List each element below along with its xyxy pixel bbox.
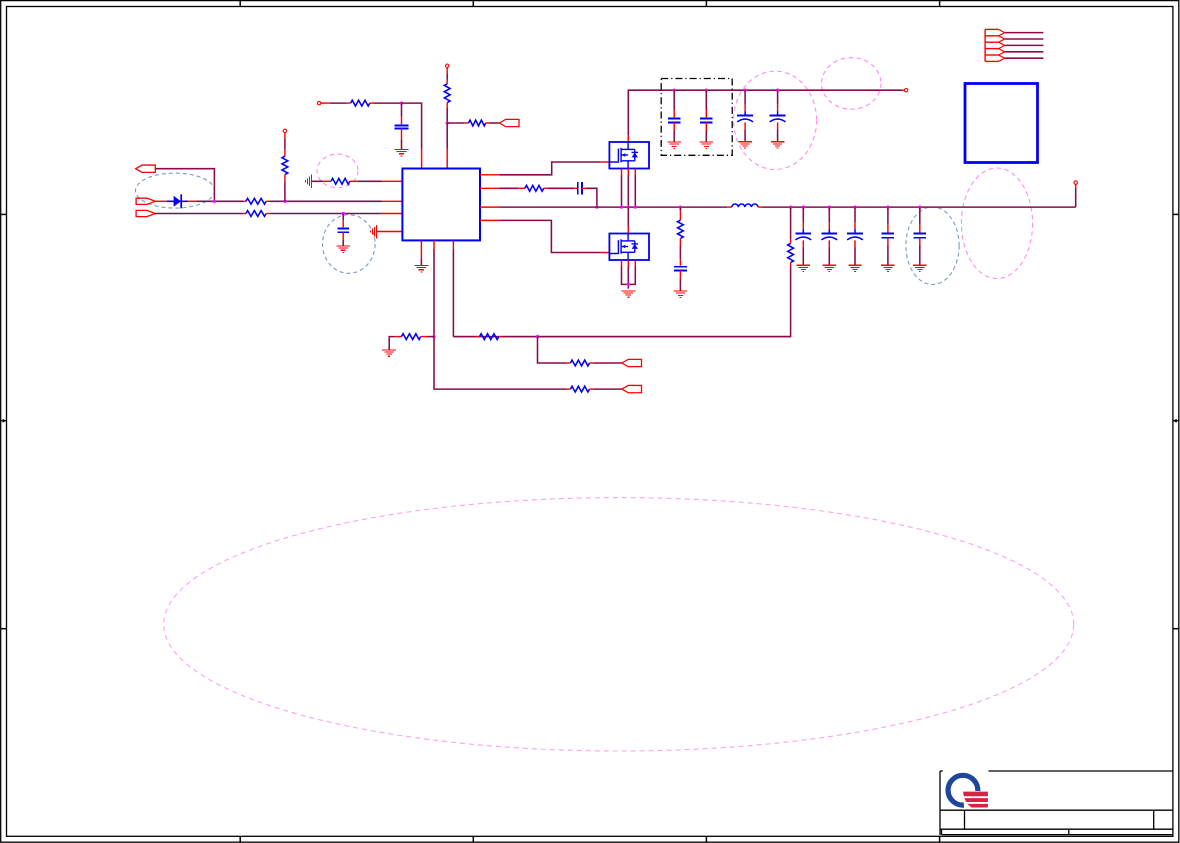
wire Q2 source pins xyxy=(622,260,636,289)
wire SW to Q2 drain xyxy=(627,207,629,233)
highlight circle (pink dashed, top right) xyxy=(822,58,881,110)
ground under C9 xyxy=(797,265,810,271)
ground G6 xyxy=(738,142,751,148)
wire T3 to R6 xyxy=(446,68,448,84)
wire U1 LG to Q2 gate xyxy=(480,220,609,252)
wire R13 to port P5 xyxy=(590,362,622,364)
wire SW rail right xyxy=(763,184,1076,207)
capacitor C10 (polarized) xyxy=(821,229,837,240)
port P4 (left arrow) xyxy=(499,119,519,126)
wire P1 to node A xyxy=(155,169,214,202)
wire FB row xyxy=(453,336,479,338)
highlight ellipse (pink dashed, large bottom) xyxy=(164,498,1074,751)
capacitor C6 (polarized) xyxy=(737,111,753,122)
ground G7 xyxy=(771,142,784,148)
terminal T4 xyxy=(1074,181,1077,184)
wire P3 to R2 xyxy=(155,213,243,215)
capacitor C13 xyxy=(914,234,926,238)
highlight circle (pink dashed, bulk caps) xyxy=(734,71,817,169)
capacitor C11 (polarized) xyxy=(847,229,863,240)
diode D1 xyxy=(167,194,188,208)
port P2 (in) xyxy=(136,198,155,204)
capacitor C2 xyxy=(338,228,349,232)
wire ground leg to R11 xyxy=(389,337,401,350)
node SW junctions xyxy=(620,205,637,208)
resistor R4 xyxy=(351,100,370,106)
resistor R5 xyxy=(331,178,350,184)
wire R8 to C3 xyxy=(544,187,578,189)
capacitor C3 xyxy=(578,182,582,195)
node SW junction C11 xyxy=(853,205,856,208)
wire C10 to ground xyxy=(828,240,830,265)
wire C13 to ground xyxy=(919,238,921,265)
node SW junction 0 xyxy=(595,205,598,208)
resistor R9 xyxy=(678,220,684,238)
wire P2 to D1 xyxy=(155,200,167,202)
wire C3 to SW node xyxy=(582,188,597,207)
ground G10 xyxy=(382,350,396,356)
wire U1 AGND pin xyxy=(420,240,422,265)
node FB junction xyxy=(432,335,435,338)
capacitor C9 (polarized) xyxy=(795,229,811,240)
wire R1 to U1 pin2 xyxy=(270,200,403,202)
resistor R7 xyxy=(469,120,486,126)
chassis ground CG2 xyxy=(371,225,377,239)
capacitor C1 xyxy=(395,125,409,128)
wire D1 to node A xyxy=(188,200,243,202)
blue box (module outline) xyxy=(965,84,1038,163)
node SW junction C10 xyxy=(828,205,831,208)
node VIN junction C5 xyxy=(705,89,708,92)
resistor R14 xyxy=(570,386,589,392)
chassis ground CG1 xyxy=(305,175,311,189)
wire U1 to R8 xyxy=(480,187,525,189)
wire SW rail xyxy=(480,206,727,208)
capacitor C5 xyxy=(700,119,712,123)
ground G2 xyxy=(337,246,350,252)
wire FB elbow to R14 xyxy=(434,337,570,390)
wire CG2 to U1 pin4 xyxy=(377,231,403,233)
op-amp U1 (regulator IC) xyxy=(402,169,480,241)
wire node D to U1 top pin xyxy=(402,103,422,168)
wire R10 to FB node xyxy=(453,263,790,337)
wire T2 to R4 xyxy=(321,102,351,104)
logo xyxy=(943,770,989,809)
node SW junction C13 xyxy=(918,205,921,208)
wire T1 to R3 xyxy=(284,133,286,157)
wire SW to C11 xyxy=(854,207,856,229)
connector J1 xyxy=(985,29,1005,61)
wire C2 to ground xyxy=(342,232,344,246)
resistor R3 xyxy=(282,156,288,174)
wire R12 to node F xyxy=(499,336,538,338)
resistor R12 xyxy=(480,334,499,340)
wire C5 to ground xyxy=(705,122,707,141)
wire R9 to C8 xyxy=(679,239,681,266)
node B junction xyxy=(284,200,287,203)
ground G3 xyxy=(621,291,635,297)
wire J1 leads xyxy=(1005,33,1044,59)
transistor Q1 xyxy=(609,142,649,169)
wire U1 pin to FB net xyxy=(433,240,435,336)
wire SW to R9 xyxy=(679,207,681,220)
terminal T3 xyxy=(446,64,449,67)
wire SW to C10 xyxy=(828,207,830,229)
node SW junction C8 xyxy=(679,205,682,208)
wire SW to C13 xyxy=(919,207,921,232)
wire SW to R10 xyxy=(790,207,792,243)
wire node D to C1 xyxy=(401,103,403,124)
node A junction xyxy=(213,200,216,203)
highlight ellipse (pink dashed, right) xyxy=(961,168,1032,279)
wire Q1 source pins xyxy=(622,169,636,208)
capacitor C7 (polarized) xyxy=(770,111,786,122)
node VIN junction C6 xyxy=(743,89,746,92)
transistor Q2 xyxy=(609,234,649,261)
wire R11 to FB junction xyxy=(421,336,434,338)
wire C9 to ground xyxy=(802,240,804,265)
wire SW to C12 xyxy=(887,207,889,232)
node F junction xyxy=(536,335,539,338)
inductor L1 xyxy=(727,204,762,207)
wire C11 to ground xyxy=(854,240,856,265)
port P6 (left arrow) xyxy=(622,385,642,392)
highlight ellipse (blue dashed, diode area) xyxy=(136,173,215,208)
wire node C to C2 xyxy=(342,214,344,228)
wire R2 to U1 pin3 xyxy=(270,213,403,215)
wire rail to C7 xyxy=(777,90,779,111)
terminal T2 xyxy=(317,101,320,104)
wire R4 to node D xyxy=(370,102,402,104)
capacitor C4 xyxy=(668,119,680,123)
ground G9 xyxy=(414,265,428,271)
wire node F to R10 net xyxy=(538,336,791,338)
resistor R1 xyxy=(243,198,270,204)
resistor R2 xyxy=(243,211,270,217)
wire node E to R7 xyxy=(447,122,468,124)
wire C4 to ground xyxy=(673,122,675,141)
ground under C11 xyxy=(848,265,861,271)
wire Q1 top pin xyxy=(627,136,629,142)
ground G8 xyxy=(674,291,687,297)
wire VIN rail xyxy=(628,90,904,136)
capacitor C8 xyxy=(674,267,687,271)
node VIN junction C4 xyxy=(673,89,676,92)
capacitor C12 xyxy=(882,234,894,238)
ground under C13 xyxy=(913,265,926,271)
wire rail to C4 xyxy=(673,90,675,117)
node VIN junction C7 xyxy=(776,89,779,92)
wire R3 to node B xyxy=(284,175,286,202)
node Q2 source junction xyxy=(627,283,630,286)
wire rail to C5 xyxy=(705,90,707,117)
wire C8 to ground xyxy=(679,270,681,291)
wire R5 to U1 pin1 xyxy=(350,180,403,182)
dash-dot box around C4 C5 xyxy=(661,79,732,156)
node SW junction R10 xyxy=(789,205,792,208)
node SW junction C12 xyxy=(886,205,889,208)
resistor R8 xyxy=(525,185,544,191)
wire C7 to ground xyxy=(777,122,779,141)
ground G4 xyxy=(668,142,681,148)
highlight ellipse (blue dashed, C2 area) xyxy=(323,215,376,274)
wire node F to R13 xyxy=(538,337,571,363)
node C junction xyxy=(342,212,345,215)
resistor R13 xyxy=(570,360,589,366)
wire SW to C9 xyxy=(802,207,804,229)
port P1 (out, left arrow) xyxy=(136,165,156,172)
resistor R6 xyxy=(444,84,450,103)
wire U1 HG to Q1 gate xyxy=(480,162,609,175)
highlight ellipse (blue dashed, output cap area) xyxy=(906,207,959,285)
title block xyxy=(940,771,1173,835)
ground under C10 xyxy=(823,265,836,271)
wire node E to U1 top pin xyxy=(446,123,448,169)
wire R7 to port P4 xyxy=(486,122,500,124)
node SW junction C9 xyxy=(802,205,805,208)
node E junction xyxy=(446,121,449,124)
port P5 (left arrow) xyxy=(622,359,642,366)
wire C1 to ground xyxy=(401,129,403,150)
wire R14 to port P6 xyxy=(590,388,622,390)
ground G5 xyxy=(700,142,713,148)
wire R6 to node E xyxy=(446,103,448,123)
port P3 (in) xyxy=(136,210,155,216)
resistor R10 xyxy=(788,243,794,262)
highlight circle (pink dashed, R5 area) xyxy=(317,154,358,188)
resistor R11 xyxy=(401,334,420,340)
wire C6 to ground xyxy=(744,122,746,141)
terminal T1 xyxy=(283,129,286,132)
wire C12 to ground xyxy=(887,238,889,265)
wire U1 pin to R12 xyxy=(452,240,454,336)
wire rail to C6 xyxy=(744,90,746,111)
node D junction xyxy=(400,101,403,104)
terminal T5 xyxy=(904,89,907,92)
wire CG1 to R5 xyxy=(311,180,331,182)
ground under C12 xyxy=(881,265,894,271)
ground G1 xyxy=(395,149,409,155)
